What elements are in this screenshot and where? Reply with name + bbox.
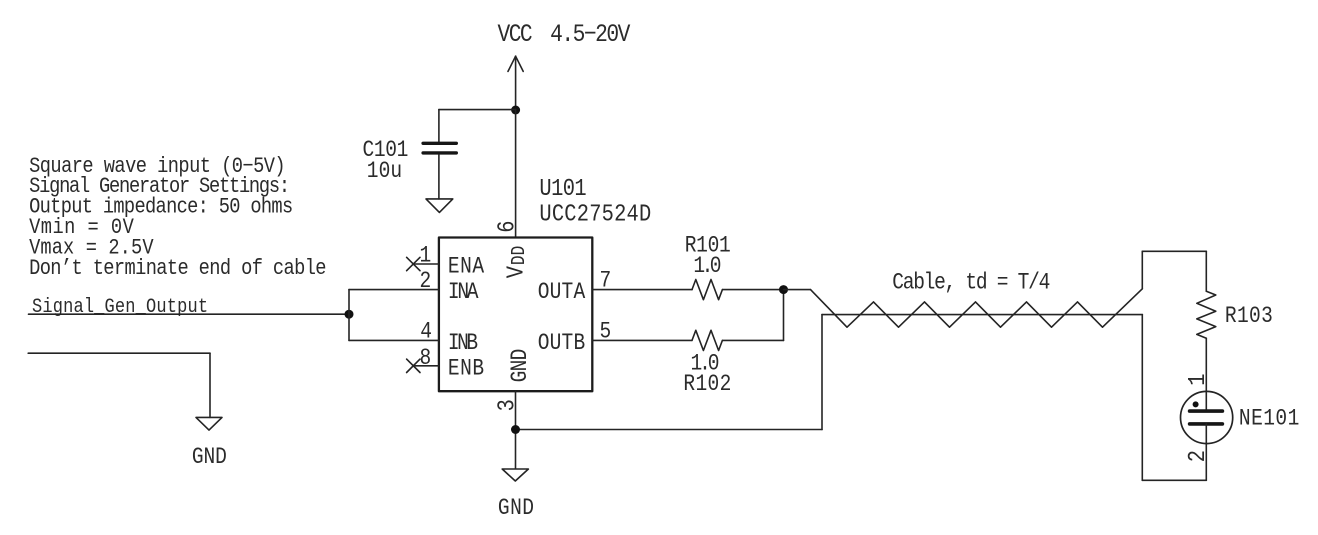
wire R101 to node B: [722, 289, 783, 291]
svg-text:4: 4: [420, 319, 432, 345]
svg-text:ENB: ENB: [448, 356, 484, 382]
svg-text:Don’t terminate end of cable: Don’t terminate end of cable: [29, 257, 326, 282]
no-connect X on pin 1: [407, 257, 420, 270]
note text block: [29, 155, 326, 282]
wire pin 3 down: [515, 391, 517, 468]
svg-text:Signal_Gen_Output: Signal_Gen_Output: [32, 296, 208, 319]
wire node A to pin 2 INA: [349, 289, 439, 291]
resistor R102: [692, 330, 722, 350]
svg-text:1.0: 1.0: [693, 254, 721, 280]
junction VCC node: [511, 106, 520, 115]
pin 1 ENA stub: [413, 263, 439, 265]
wire signal return: [28, 352, 210, 354]
svg-text:Cable, td = T/4: Cable, td = T/4: [892, 270, 1050, 296]
neon lamp NE101: [1181, 391, 1233, 443]
svg-text:NE101: NE101: [1239, 406, 1299, 432]
ground symbol under U101: [502, 469, 528, 481]
wire cable top to node up: [1141, 251, 1143, 288]
svg-text:UCC27524D: UCC27524D: [539, 200, 651, 228]
wire OUTA to R101: [592, 289, 692, 291]
svg-text:GND: GND: [192, 445, 227, 471]
svg-text:INB: INB: [448, 331, 478, 357]
wire Signal_Gen_Output: [29, 313, 350, 315]
svg-text:U101: U101: [539, 175, 586, 203]
svg-text:DD: DD: [509, 246, 531, 265]
svg-text:VCC: VCC: [498, 21, 533, 49]
svg-text:R103: R103: [1225, 304, 1273, 330]
capacitor C101: [423, 110, 456, 199]
svg-text:GND: GND: [508, 349, 534, 383]
svg-text:OUTB: OUTB: [538, 331, 586, 357]
svg-text:OUTA: OUTA: [538, 280, 586, 306]
wire shield down right: [1141, 315, 1143, 481]
svg-text:GND: GND: [498, 496, 534, 522]
wire top to R103: [1142, 250, 1206, 252]
pin 8 ENB stub: [413, 365, 439, 367]
wire node A to pin 4 INB: [349, 339, 439, 341]
svg-text:6: 6: [493, 220, 521, 232]
wire shield down left: [821, 315, 823, 430]
wire node B to cable: [784, 289, 811, 291]
svg-text:INA: INA: [448, 280, 479, 306]
resistor R103: [1197, 291, 1216, 338]
svg-text:R102: R102: [683, 372, 731, 398]
cable inner conductor zigzag: [811, 289, 1143, 327]
cable shield baseline: [822, 314, 1142, 316]
svg-text:1: 1: [419, 243, 431, 269]
svg-text:10u: 10u: [367, 158, 402, 184]
svg-text:8: 8: [419, 346, 431, 372]
svg-text:1: 1: [1184, 373, 1212, 385]
svg-text:ENA: ENA: [448, 254, 484, 280]
ground symbol under C101: [426, 199, 453, 213]
wire VCC junction down to U101 pin 6: [515, 110, 517, 238]
ground symbol (left): [196, 417, 222, 430]
net label VCC 4.5-20V: [498, 21, 631, 49]
op-amp U101 body: [439, 238, 592, 392]
wire ground return to pin 3 node: [516, 429, 823, 431]
wire NE101 pin 2 down: [1205, 424, 1207, 480]
wire bottom return: [1142, 479, 1206, 481]
junction node B: [779, 285, 788, 294]
junction node A: [345, 310, 354, 319]
wire node B vertical: [783, 290, 785, 341]
wire VCC junction to C101: [439, 109, 516, 111]
svg-text:2: 2: [419, 269, 431, 295]
power flag VCC: [508, 56, 523, 109]
wire node A vertical: [348, 290, 350, 341]
svg-text:V: V: [502, 265, 530, 278]
junction pin 3 node: [511, 425, 520, 434]
resistor R101: [692, 280, 722, 300]
wire R102 to node B: [722, 339, 783, 341]
no-connect X on pin 8: [407, 359, 420, 372]
wire OUTB to R102: [592, 339, 692, 341]
wire down to R103: [1205, 251, 1207, 291]
wire signal return down: [209, 353, 211, 417]
svg-text:2: 2: [1184, 450, 1212, 462]
wire R103 to NE101 pin 1: [1205, 338, 1207, 411]
svg-text:3: 3: [493, 399, 521, 411]
svg-text:4.5−20V: 4.5−20V: [550, 21, 630, 49]
